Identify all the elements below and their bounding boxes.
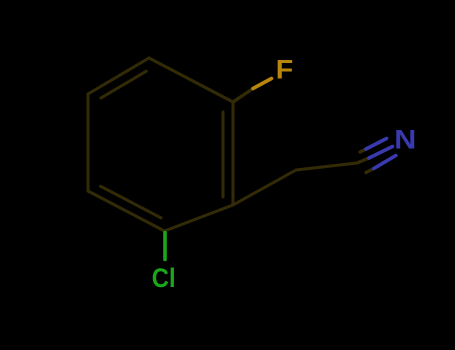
benzene ring: edge C4-C5 inner double bond line [101, 71, 146, 98]
C6-F bond dark half [233, 89, 253, 103]
benzene ring: edge C3-C4 [87, 94, 90, 191]
C2-Cl bond green [163, 233, 167, 260]
benzene ring: edge C2-C3 [88, 191, 165, 231]
nitrile triple bond top line blue [366, 139, 387, 150]
svg-text:F: F [276, 54, 293, 84]
svg-text:N: N [394, 125, 416, 155]
bond C1-CH2 [233, 170, 296, 205]
nitrile triple bond bottom line dark tail [366, 169, 374, 173]
nitrile triple bond bottom line blue [374, 156, 396, 169]
benzene ring: edge C4-C5 [88, 58, 149, 94]
svg-text:Cl: Cl [152, 263, 176, 293]
benzene ring: edge C2-C3 inner double bond line [101, 186, 162, 218]
nitrile triple bond middle line blue half [369, 147, 393, 159]
benzene ring: edge C1-C2 [165, 205, 234, 231]
C6-F bond bright goldenrod half [253, 79, 272, 89]
benzene ring: edge C5-C6 [149, 58, 233, 102]
bond CH2-C(nitrile) [296, 163, 357, 170]
benzene ring: edge C6-C1 inner double bond line [222, 112, 225, 197]
nitrile triple bond middle line dark half [357, 158, 369, 163]
nitrile triple bond top line dark tail [360, 149, 366, 152]
benzene ring: edge C6-C1 [232, 102, 235, 205]
